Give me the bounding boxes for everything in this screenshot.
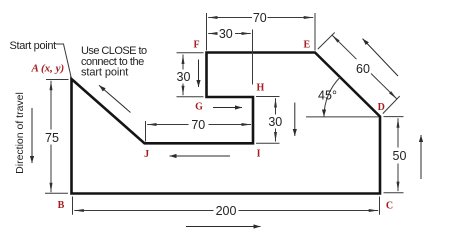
- dimension 200 (B to C, bottom): [73, 197, 380, 215]
- direction of travel arrow G to H: [213, 107, 242, 109]
- leader from Start point text to corner A: [56, 44, 71, 78]
- svg-text:F: F: [193, 40, 199, 51]
- svg-text:C: C: [386, 200, 393, 211]
- direction of travel arrow D to E: [363, 39, 399, 76]
- 45 degree angle reference line: [306, 116, 379, 118]
- svg-text:30: 30: [219, 27, 233, 41]
- dimension 60 (D to E, diagonal): [318, 33, 400, 114]
- svg-text:D: D: [378, 102, 385, 113]
- svg-text:30: 30: [268, 115, 282, 129]
- svg-text:70: 70: [191, 118, 205, 132]
- 45 degree angle arc: [324, 77, 340, 116]
- direction of travel arrow F to G: [198, 60, 200, 88]
- svg-text:60: 60: [356, 62, 370, 76]
- svg-text:Direction of travel: Direction of travel: [14, 92, 26, 174]
- svg-text:45°: 45°: [318, 89, 337, 103]
- svg-text:75: 75: [45, 131, 59, 145]
- dimension 30 (H to I, right of notch): [256, 97, 280, 144]
- direction of travel arrow J to A: [99, 85, 131, 112]
- direction of travel arrow C to D: [420, 135, 422, 179]
- outline: closed profile A-B-C-D-E-F-G-H-I-J: [72, 53, 381, 194]
- svg-text:I: I: [257, 149, 261, 160]
- direction of travel arrow I to J: [170, 155, 231, 157]
- svg-text:J: J: [144, 149, 149, 160]
- dimension 30 (F to G, left of notch): [177, 53, 204, 97]
- dimension 75 (A to B, left side): [45, 80, 69, 194]
- svg-text:A (x, y): A (x, y): [31, 62, 65, 74]
- dimension 50 (C to D, right side): [384, 117, 404, 193]
- svg-text:B: B: [58, 200, 65, 211]
- svg-text:E: E: [303, 40, 310, 51]
- svg-text:H: H: [257, 83, 265, 94]
- dimension 70 (J to I, middle): [146, 121, 252, 142]
- svg-text:70: 70: [253, 11, 267, 25]
- svg-text:G: G: [195, 102, 203, 113]
- dimension 70 (F to E, top): [207, 13, 316, 51]
- svg-text:30: 30: [177, 70, 191, 84]
- svg-text:200: 200: [216, 204, 237, 218]
- svg-text:start point: start point: [81, 67, 128, 79]
- svg-text:50: 50: [393, 149, 407, 163]
- svg-text:Start point: Start point: [10, 40, 57, 52]
- direction of travel arrow A to B: [31, 108, 33, 163]
- direction of travel arrow B to C: [186, 226, 261, 228]
- dimension 30 (F to H x-extent, top): [208, 30, 252, 85]
- direction of travel arrow H to I: [294, 103, 296, 137]
